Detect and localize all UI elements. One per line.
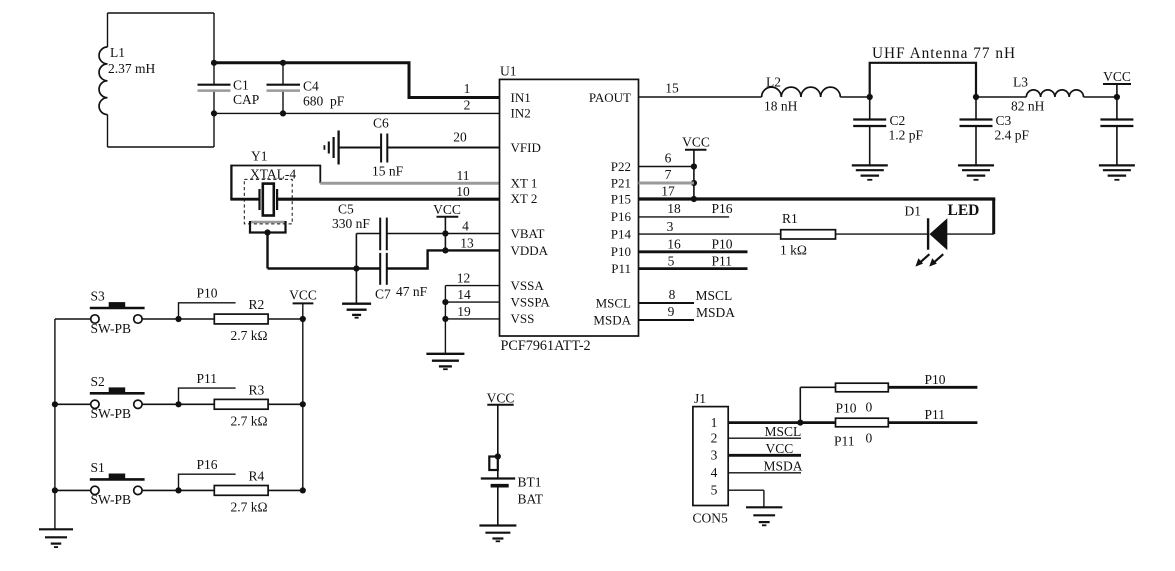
svg-text:P11: P11 [925, 407, 946, 422]
svg-text:CON5: CON5 [693, 511, 729, 526]
svg-text:4: 4 [711, 465, 718, 480]
svg-text:MSDA: MSDA [764, 458, 803, 473]
svg-text:P10: P10 [925, 372, 946, 387]
svg-text:4: 4 [462, 218, 469, 233]
svg-text:1.2 pF: 1.2 pF [889, 128, 924, 143]
svg-text:P10: P10 [197, 286, 218, 301]
svg-text:L1: L1 [110, 45, 125, 60]
svg-text:C7: C7 [375, 287, 391, 302]
svg-text:3: 3 [711, 448, 718, 463]
svg-text:MSDA: MSDA [696, 305, 735, 320]
svg-text:P11: P11 [712, 253, 733, 268]
svg-text:P21: P21 [611, 175, 631, 190]
svg-text:CAP: CAP [233, 92, 259, 107]
svg-text:P11: P11 [834, 433, 855, 448]
svg-text:P10: P10 [611, 244, 631, 259]
svg-text:XTAL-4: XTAL-4 [250, 166, 296, 181]
svg-text:C4: C4 [303, 79, 319, 94]
svg-text:P11: P11 [197, 371, 218, 386]
svg-text:5: 5 [668, 253, 675, 268]
svg-text:SW-PB: SW-PB [91, 321, 132, 336]
svg-text:0: 0 [866, 430, 873, 445]
svg-text:XT 2: XT 2 [511, 191, 538, 206]
svg-text:R2: R2 [249, 297, 265, 312]
svg-text:P11: P11 [611, 261, 631, 276]
svg-text:VCC: VCC [487, 391, 515, 406]
svg-text:1: 1 [711, 415, 718, 430]
svg-text:2.37 mH: 2.37 mH [108, 61, 156, 76]
svg-text:VCC: VCC [289, 288, 317, 303]
svg-text:11: 11 [457, 168, 470, 183]
svg-text:MSDA: MSDA [593, 312, 631, 327]
svg-text:82 nH: 82 nH [1011, 99, 1045, 114]
svg-text:S2: S2 [91, 374, 105, 389]
svg-text:15 nF: 15 nF [372, 164, 404, 179]
svg-text:330 nF: 330 nF [332, 216, 370, 231]
svg-text:R1: R1 [782, 211, 798, 226]
svg-text:XT 1: XT 1 [511, 176, 538, 191]
svg-text:16: 16 [667, 237, 681, 252]
svg-text:VSS: VSS [511, 311, 535, 326]
svg-text:S3: S3 [91, 289, 106, 304]
svg-text:VSSA: VSSA [511, 278, 545, 293]
svg-text:14: 14 [457, 287, 471, 302]
svg-text:15: 15 [665, 80, 679, 95]
svg-text:5: 5 [711, 483, 718, 498]
svg-text:PAOUT: PAOUT [589, 90, 631, 105]
svg-text:LED: LED [948, 202, 980, 219]
svg-text:680 pF: 680 pF [303, 94, 345, 109]
svg-text:BAT: BAT [518, 492, 544, 507]
svg-text:2: 2 [464, 98, 471, 113]
svg-text:47 nF: 47 nF [396, 284, 428, 299]
svg-text:VCC: VCC [766, 441, 794, 456]
svg-text:MSCL: MSCL [765, 424, 802, 439]
svg-text:P16: P16 [712, 201, 733, 216]
svg-text:VCC: VCC [433, 202, 461, 217]
svg-text:17: 17 [661, 184, 675, 199]
svg-text:12: 12 [457, 270, 471, 285]
svg-text:6: 6 [665, 150, 672, 165]
svg-text:1 kΩ: 1 kΩ [780, 243, 807, 258]
svg-text:2.7 kΩ: 2.7 kΩ [231, 413, 268, 428]
svg-text:8: 8 [669, 287, 676, 302]
svg-text:P14: P14 [611, 226, 632, 241]
svg-text:C1: C1 [233, 78, 249, 93]
svg-text:SW-PB: SW-PB [91, 492, 132, 507]
svg-text:P10: P10 [712, 237, 733, 252]
svg-text:J1: J1 [694, 391, 706, 406]
svg-text:VFID: VFID [511, 140, 541, 155]
svg-text:D1: D1 [905, 203, 922, 218]
svg-text:MSCL: MSCL [596, 295, 631, 310]
svg-text:SW-PB: SW-PB [91, 406, 132, 421]
svg-text:VCC: VCC [682, 134, 710, 149]
svg-text:IN2: IN2 [511, 106, 531, 121]
svg-text:C3: C3 [996, 113, 1012, 128]
svg-text:VSSPA: VSSPA [511, 294, 551, 309]
svg-text:S1: S1 [91, 460, 105, 475]
svg-text:C5: C5 [338, 202, 354, 217]
svg-text:R4: R4 [249, 469, 265, 484]
svg-text:PCF7961ATT-2: PCF7961ATT-2 [501, 338, 591, 354]
svg-text:R3: R3 [249, 383, 265, 398]
svg-text:3: 3 [667, 219, 674, 234]
svg-text:2.7 kΩ: 2.7 kΩ [231, 328, 268, 343]
svg-text:13: 13 [460, 235, 474, 250]
svg-text:UHF Antenna 77 nH: UHF Antenna 77 nH [872, 45, 1016, 62]
svg-text:7: 7 [665, 167, 672, 182]
svg-text:0: 0 [866, 399, 873, 414]
svg-text:9: 9 [668, 304, 675, 319]
svg-text:P16: P16 [611, 209, 632, 224]
svg-text:20: 20 [453, 129, 467, 144]
svg-text:19: 19 [457, 304, 471, 319]
svg-text:P16: P16 [197, 457, 218, 472]
svg-text:MSCL: MSCL [696, 288, 733, 303]
svg-text:2.4 pF: 2.4 pF [995, 128, 1030, 143]
svg-text:P22: P22 [611, 159, 631, 174]
svg-text:P10: P10 [836, 400, 857, 415]
svg-text:U1: U1 [500, 64, 517, 79]
svg-text:18: 18 [667, 201, 681, 216]
svg-text:C2: C2 [890, 113, 906, 128]
svg-text:L3: L3 [1013, 75, 1028, 90]
svg-text:2.7 kΩ: 2.7 kΩ [231, 499, 268, 514]
svg-text:Y1: Y1 [251, 149, 268, 164]
svg-text:L2: L2 [766, 75, 781, 90]
svg-text:VDDA: VDDA [511, 243, 549, 258]
svg-text:18 nH: 18 nH [764, 99, 798, 114]
svg-text:C6: C6 [373, 116, 389, 131]
svg-text:2: 2 [711, 431, 718, 446]
svg-text:VCC: VCC [1103, 69, 1131, 84]
svg-text:1: 1 [464, 81, 471, 96]
svg-text:10: 10 [456, 184, 470, 199]
svg-text:BT1: BT1 [518, 475, 542, 490]
svg-text:IN1: IN1 [511, 90, 531, 105]
svg-text:VBAT: VBAT [511, 226, 545, 241]
svg-text:P15: P15 [611, 191, 631, 206]
